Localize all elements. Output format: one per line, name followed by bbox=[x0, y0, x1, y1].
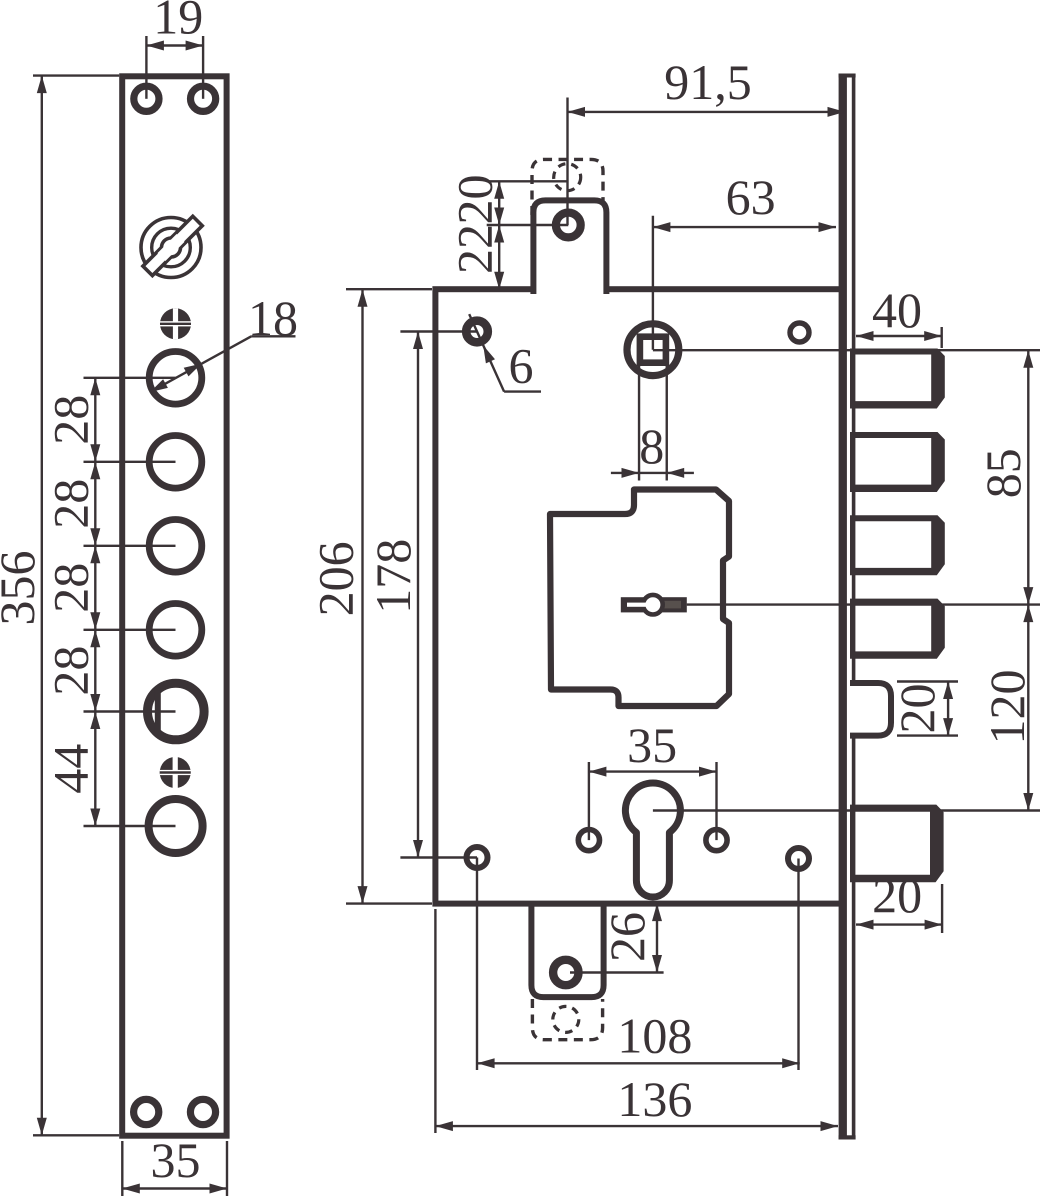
svg-text:35: 35 bbox=[627, 717, 677, 773]
svg-text:120: 120 bbox=[979, 670, 1035, 745]
svg-text:19: 19 bbox=[153, 0, 203, 45]
svg-text:6: 6 bbox=[509, 337, 534, 393]
svg-text:356: 356 bbox=[0, 551, 45, 626]
svg-text:20: 20 bbox=[872, 867, 922, 923]
svg-text:8: 8 bbox=[639, 418, 664, 474]
svg-text:85: 85 bbox=[975, 448, 1031, 498]
svg-text:136: 136 bbox=[617, 1071, 692, 1127]
svg-text:20: 20 bbox=[889, 684, 945, 734]
svg-text:28: 28 bbox=[43, 646, 99, 696]
svg-text:35: 35 bbox=[151, 1132, 201, 1188]
svg-text:20: 20 bbox=[447, 175, 503, 225]
svg-text:28: 28 bbox=[43, 479, 99, 529]
svg-text:178: 178 bbox=[365, 539, 421, 614]
svg-text:63: 63 bbox=[726, 169, 776, 225]
svg-text:108: 108 bbox=[617, 1008, 692, 1064]
svg-text:18: 18 bbox=[248, 290, 298, 346]
svg-text:28: 28 bbox=[43, 395, 99, 445]
svg-text:26: 26 bbox=[599, 912, 655, 962]
svg-text:91,5: 91,5 bbox=[664, 54, 752, 110]
svg-text:206: 206 bbox=[308, 541, 364, 616]
svg-text:40: 40 bbox=[872, 282, 922, 338]
svg-text:22: 22 bbox=[447, 224, 503, 274]
svg-text:44: 44 bbox=[43, 744, 99, 794]
svg-text:28: 28 bbox=[43, 563, 99, 613]
